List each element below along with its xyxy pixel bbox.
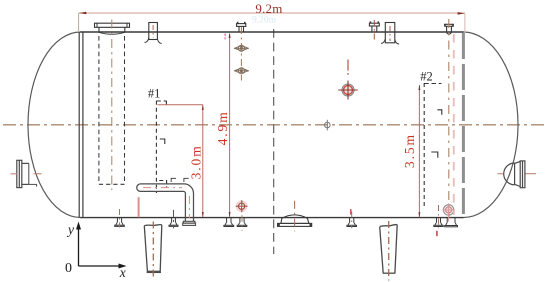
left head — [28, 32, 81, 218]
manhole M1 neck — [98, 27, 100, 32]
red target T1 — [338, 81, 357, 100]
nozzle N2 flange — [237, 24, 246, 27]
nozzle N3 centerline — [373, 20, 375, 43]
svg-text:#1: #1 — [148, 86, 161, 100]
svg-text:#2: #2 — [420, 70, 433, 84]
red target T2 — [236, 200, 248, 212]
coordinate axis y — [78, 228, 80, 266]
support leg right — [380, 225, 398, 274]
red dash below B6 — [436, 231, 438, 236]
manhole M1 centerline — [111, 20, 113, 191]
nozzle N4 long centerline — [448, 19, 450, 218]
svg-text:3.0m: 3.0m — [188, 144, 203, 179]
svg-text:x: x — [119, 265, 126, 280]
support leg right centerline — [388, 221, 390, 281]
svg-text:0: 0 — [65, 261, 72, 276]
lug L1 centerline — [152, 25, 154, 38]
svg-text:9.20m: 9.20m — [252, 16, 277, 26]
dimension 9.2m line — [79, 12, 465, 14]
bottom nozzle B5 — [347, 218, 357, 227]
dimension 3.0m top arrow — [202, 105, 204, 110]
dimension 3.0m leader — [158, 104, 203, 106]
node #1 dashed bracket — [156, 101, 166, 193]
nozzle N3 bolts — [369, 21, 371, 23]
right head — [463, 32, 518, 218]
lug L2 — [385, 23, 395, 43]
coordinate axis x — [79, 265, 120, 267]
level symbol on centerline — [325, 120, 331, 131]
nozzle N4 bolts — [444, 24, 446, 26]
internal elbow pipe — [137, 184, 194, 221]
manhole M1 hidden projection dashed — [98, 36, 100, 184]
horizontal centerline — [3, 124, 547, 126]
tank shell bottom line — [80, 217, 464, 219]
left tangent double line — [78, 32, 80, 218]
support leg left centerline — [152, 222, 154, 279]
bottom nozzle B1 centerline — [119, 209, 121, 228]
spray nozzle symbol S2 — [234, 68, 249, 74]
lug L1 — [149, 23, 158, 40]
right head nozzle centerline — [498, 173, 504, 175]
lug L2 centerline — [389, 26, 391, 41]
dimension 3.0m bottom arrow — [202, 212, 204, 217]
red target T3 — [443, 203, 455, 221]
bottom nozzle B6 — [434, 218, 443, 227]
bottom nozzle B2 centerline — [173, 210, 175, 229]
nozzle N4 flange — [445, 24, 453, 26]
dimension 4.9m bottom arrow — [229, 212, 231, 217]
tank shell top line — [80, 31, 464, 33]
svg-text:y: y — [66, 222, 74, 237]
dimension 3.5m top arrow — [418, 85, 420, 90]
nozzle N4 neck — [446, 26, 448, 32]
dimension 9.2m left arrow — [79, 12, 86, 15]
svg-text:9.2m: 9.2m — [255, 1, 282, 16]
right head nozzle — [504, 161, 525, 188]
bottom nozzle B6 centerline — [438, 205, 440, 228]
right tangent thick gray line — [462, 33, 465, 218]
bottom nozzle B1 — [115, 218, 125, 227]
dimension 9.2m right arrow — [458, 12, 465, 15]
vertical mid long-dash line — [273, 29, 275, 254]
nozzle N3 neck — [371, 26, 373, 33]
dimension 9.2m extension line right — [464, 14, 466, 33]
elbow pipe bottom flange — [183, 221, 195, 223]
elbow pipe centerline — [143, 187, 182, 189]
manhole M1 flange — [95, 23, 130, 27]
left head nozzle centerline — [11, 173, 18, 175]
bottom nozzle B4 — [237, 218, 247, 227]
red dash above B5 — [350, 209, 352, 215]
support leg left — [144, 225, 162, 273]
nozzle N2 neck — [238, 26, 240, 32]
bottom nozzle B3 — [224, 218, 234, 227]
dimension 3.5m bottom arrow — [418, 212, 420, 217]
dimension 3.5m line — [418, 85, 420, 217]
dimension 4.9m top arrow — [229, 33, 231, 38]
nozzle N2 centerline — [240, 27, 242, 81]
bottom nozzle B7 — [445, 218, 458, 227]
bottom nozzle B2 — [169, 218, 178, 227]
dimension 3.0m line — [202, 105, 204, 217]
bottom nozzle B5 centerline — [351, 212, 353, 229]
dimension 9.2m extension line left — [78, 13, 80, 31]
dashed marks above pipe — [171, 178, 189, 182]
nozzle N3 flange — [369, 23, 379, 26]
red line under pipe end — [138, 197, 140, 217]
nozzle N2 bolts — [237, 22, 239, 24]
bottom sump — [278, 215, 312, 227]
bottom sump centerline — [294, 201, 296, 232]
left head nozzle — [17, 160, 37, 187]
dimension 4.9m line — [229, 34, 231, 217]
svg-text:3.5m: 3.5m — [402, 133, 417, 168]
spray nozzle symbol S1 — [234, 45, 249, 51]
node #2 dashed bracket — [424, 83, 442, 207]
red target T1 centerline above — [347, 60, 349, 71]
red tick near 4.9m — [224, 33, 226, 36]
bottom nozzle B4 centerline — [241, 201, 243, 231]
faint pink halo right — [453, 34, 455, 215]
svg-text:4.9m: 4.9m — [215, 110, 230, 145]
